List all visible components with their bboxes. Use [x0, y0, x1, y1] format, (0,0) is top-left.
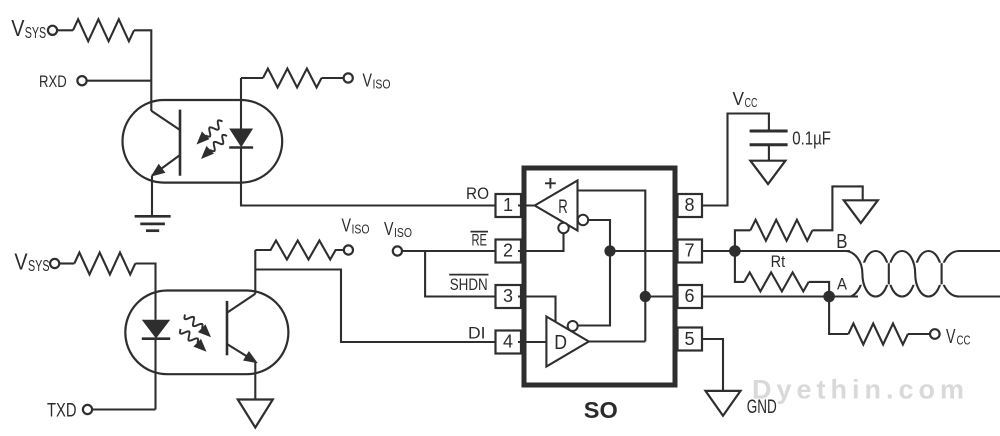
svg-text:SO: SO: [584, 397, 618, 423]
optocoupler U2 body (top): [123, 100, 283, 183]
driver inverted output bubble: [568, 321, 578, 331]
svg-text:8: 8: [684, 195, 694, 215]
resistor Rt lead left: [735, 251, 744, 282]
watermark Dyethin.com: [752, 375, 964, 405]
resistor R5: [848, 324, 908, 345]
transistor Q2 base bar: [226, 301, 229, 355]
wire LED2 cathode to TXD: [154, 339, 156, 410]
pin 8 box: [678, 194, 703, 217]
resistor Rt: [744, 272, 808, 291]
wire pin 7 to line B: [702, 250, 850, 252]
wire dot to pin 7: [610, 250, 678, 252]
svg-text:ISO: ISO: [352, 222, 370, 237]
wire R5 to terminal: [908, 333, 930, 335]
wire TXD: [92, 408, 155, 410]
svg-text:3: 3: [503, 286, 513, 306]
capacitor C1: [750, 131, 788, 145]
wire Q1 emitter to ground: [151, 176, 153, 217]
transistor Q2 collector: [227, 294, 255, 313]
terminal VCC (right): [930, 329, 940, 339]
label TXD: [47, 401, 77, 422]
pin 1 number: [503, 195, 513, 215]
wire Q2 emitter to ground: [254, 362, 256, 400]
wire pin 5 to GND: [702, 339, 723, 391]
wire VISO to SHDN: [425, 251, 495, 297]
wire LED1 anode lead: [241, 77, 263, 79]
svg-text:V: V: [384, 218, 394, 239]
svg-text:RXD: RXD: [39, 72, 67, 91]
wire DI to D input: [518, 341, 546, 343]
terminal VSYS (top): [48, 26, 57, 35]
junction dot B internal: [604, 245, 615, 256]
svg-text:ISO: ISO: [373, 77, 391, 92]
pin 7 number: [684, 241, 694, 261]
pin 2 number: [503, 241, 513, 261]
junction dot B external: [729, 245, 741, 257]
diode LED2: [142, 320, 170, 339]
svg-text:V: V: [11, 15, 24, 41]
wire R2 to terminal: [322, 77, 344, 79]
twisted pair wire A over-stroke at crossing 4: [941, 263, 943, 284]
svg-text:RO: RO: [466, 184, 489, 203]
label VCC (right): [946, 326, 971, 348]
svg-text:SHDN: SHDN: [450, 275, 488, 294]
svg-text:0.1µF: 0.1µF: [792, 129, 831, 149]
label SO: [584, 397, 618, 423]
resistor R2: [263, 69, 322, 88]
label Rt: [771, 252, 786, 271]
terminal TXD: [83, 405, 92, 414]
receiver plus sign: [545, 178, 556, 189]
ground triangle (C1): [750, 161, 785, 184]
wire VSYS to R1: [57, 29, 73, 31]
ground triangle (pin 5 GND): [706, 391, 741, 416]
ground triangle (R4): [844, 200, 878, 223]
svg-text:5: 5: [684, 329, 694, 349]
svg-text:V: V: [946, 326, 956, 348]
svg-text:B: B: [836, 230, 847, 253]
label VISO (top): [363, 70, 391, 92]
svg-text:V: V: [363, 70, 373, 91]
resistor R4 lead: [735, 230, 751, 251]
optocoupler U3 body (bottom): [125, 291, 288, 375]
receiver enable bubble: [558, 223, 568, 233]
twisted pair crossing casing 4: [937, 263, 947, 285]
resistor R4: [750, 220, 812, 241]
pin 4 number: [503, 332, 513, 352]
junction dot A external: [823, 291, 835, 303]
receiver inverting input bubble: [578, 215, 588, 225]
svg-text:6: 6: [684, 286, 694, 306]
twisted pair wire A: [851, 251, 1000, 297]
wire dot to pin 6: [645, 295, 677, 297]
ground triangle (bottom optocoupler): [238, 400, 273, 428]
svg-text:Rt: Rt: [771, 252, 786, 271]
driver D letter: [554, 331, 567, 354]
svg-text:CC: CC: [957, 333, 971, 348]
diode LED1: [229, 129, 253, 148]
label RXD: [39, 72, 67, 91]
wire R6 to LED2 anode: [135, 264, 155, 320]
label VISO (middle): [342, 215, 370, 237]
junction dot A internal: [640, 291, 651, 302]
svg-text:D: D: [554, 331, 567, 354]
label DI: [468, 324, 486, 343]
svg-text:V: V: [14, 248, 27, 274]
wire pin 6 to line A: [702, 295, 858, 297]
wire pin 8 to VCC: [702, 114, 769, 206]
light arrow 2 (top optocoupler): [201, 135, 227, 159]
transistor Q1 collector: [151, 111, 180, 130]
twisted pair crossing casing 3: [910, 263, 920, 285]
resistor Rt lead right: [809, 282, 829, 297]
terminal RXD: [77, 76, 86, 85]
light arrow 4 (bottom optocoupler): [180, 329, 207, 352]
pin 6 number: [684, 286, 694, 306]
svg-text:V: V: [733, 88, 745, 109]
transistor Q1 emitter arrowhead: [151, 164, 166, 177]
svg-text:RE: RE: [472, 232, 488, 250]
pin 7 box: [678, 240, 703, 263]
twisted pair crossing casing 2: [884, 263, 894, 285]
pin 5 box: [678, 328, 703, 351]
ground earth (top optocoupler): [135, 216, 171, 230]
svg-text:7: 7: [684, 241, 694, 261]
pin 8 number: [684, 195, 694, 215]
label SHDN with overline: [450, 275, 488, 294]
svg-text:Dyethin.com: Dyethin.com: [752, 375, 964, 405]
transistor Q1 emitter: [152, 155, 180, 176]
terminal VISO (right): [393, 246, 402, 255]
diode LED2 cathode bar: [142, 337, 170, 340]
svg-text:4: 4: [503, 332, 513, 352]
label RO: [466, 184, 489, 203]
wire VSYS to R6: [60, 262, 75, 264]
svg-text:SYS: SYS: [28, 258, 50, 275]
pin 6 box: [678, 285, 703, 308]
wire C1 to ground: [768, 145, 770, 161]
wire R4 to ground: [812, 186, 862, 230]
resistor R3: [255, 241, 343, 260]
wire LED1 cathode to RO: [241, 148, 496, 206]
receiver R letter: [558, 197, 568, 218]
svg-text:ISO: ISO: [394, 225, 412, 240]
wire node to DI: [255, 270, 495, 343]
driver D triangle: [546, 317, 588, 367]
label VSYS (top): [11, 15, 46, 42]
svg-text:TXD: TXD: [47, 401, 77, 422]
IC U1 body SO-8: [524, 168, 675, 385]
label B: [836, 230, 847, 253]
wire D output to A net: [589, 340, 646, 342]
wire SHDN to D enable: [518, 297, 556, 323]
svg-text:2: 2: [503, 241, 513, 261]
wire B net internal: [578, 220, 610, 326]
label RE with overline: [472, 232, 488, 250]
label GND: [747, 396, 777, 418]
wire RXD to node: [87, 80, 152, 82]
pin 5 number: [684, 329, 694, 349]
pin 3 number: [503, 286, 513, 306]
svg-text:1: 1: [503, 195, 513, 215]
diode LED1 anode wire: [240, 78, 242, 129]
wire A dot to R5: [829, 297, 848, 335]
label A: [837, 276, 847, 294]
svg-text:V: V: [342, 215, 352, 236]
wire R output to pin 1: [518, 204, 535, 206]
transistor Q2 emitter arrowhead: [243, 351, 258, 363]
pin 4 box: [496, 331, 522, 354]
wire Q2 collector to node: [254, 250, 256, 294]
pin 2 box: [496, 240, 522, 263]
twisted pair wire A over-stroke at crossing 2: [888, 263, 890, 284]
transistor Q2 emitter: [227, 344, 255, 362]
resistor R6: [74, 253, 135, 275]
light arrow 3 (bottom optocoupler): [184, 315, 211, 338]
transistor Q1 base bar: [179, 110, 182, 176]
svg-text:DI: DI: [468, 324, 486, 343]
wire A net internal: [578, 191, 646, 342]
twisted pair crossing casing 1: [858, 263, 868, 285]
label VCC (top): [733, 88, 758, 110]
pin 1 box: [496, 194, 522, 217]
terminal VISO (middle): [344, 245, 353, 254]
light arrow 1 (top optocoupler): [197, 120, 223, 144]
svg-text:SYS: SYS: [25, 25, 47, 42]
label VSYS (bottom): [14, 248, 49, 275]
pin 3 box: [496, 285, 522, 308]
diode LED1 cathode bar: [229, 146, 253, 149]
svg-text:CC: CC: [745, 95, 758, 110]
resistor R1: [73, 19, 134, 41]
label VISO (right): [384, 218, 412, 240]
terminal VISO (top): [344, 73, 353, 82]
terminal VSYS (bottom): [50, 259, 59, 268]
wire RE to enable bubble: [518, 233, 564, 251]
wire R1 to node: [134, 30, 151, 111]
receiver R triangle: [535, 181, 578, 231]
svg-text:R: R: [558, 197, 568, 218]
twisted pair wire B: [845, 251, 1000, 297]
svg-text:A: A: [837, 276, 847, 294]
wire VISO to RE: [402, 250, 495, 252]
label 0.1uF: [792, 129, 831, 149]
